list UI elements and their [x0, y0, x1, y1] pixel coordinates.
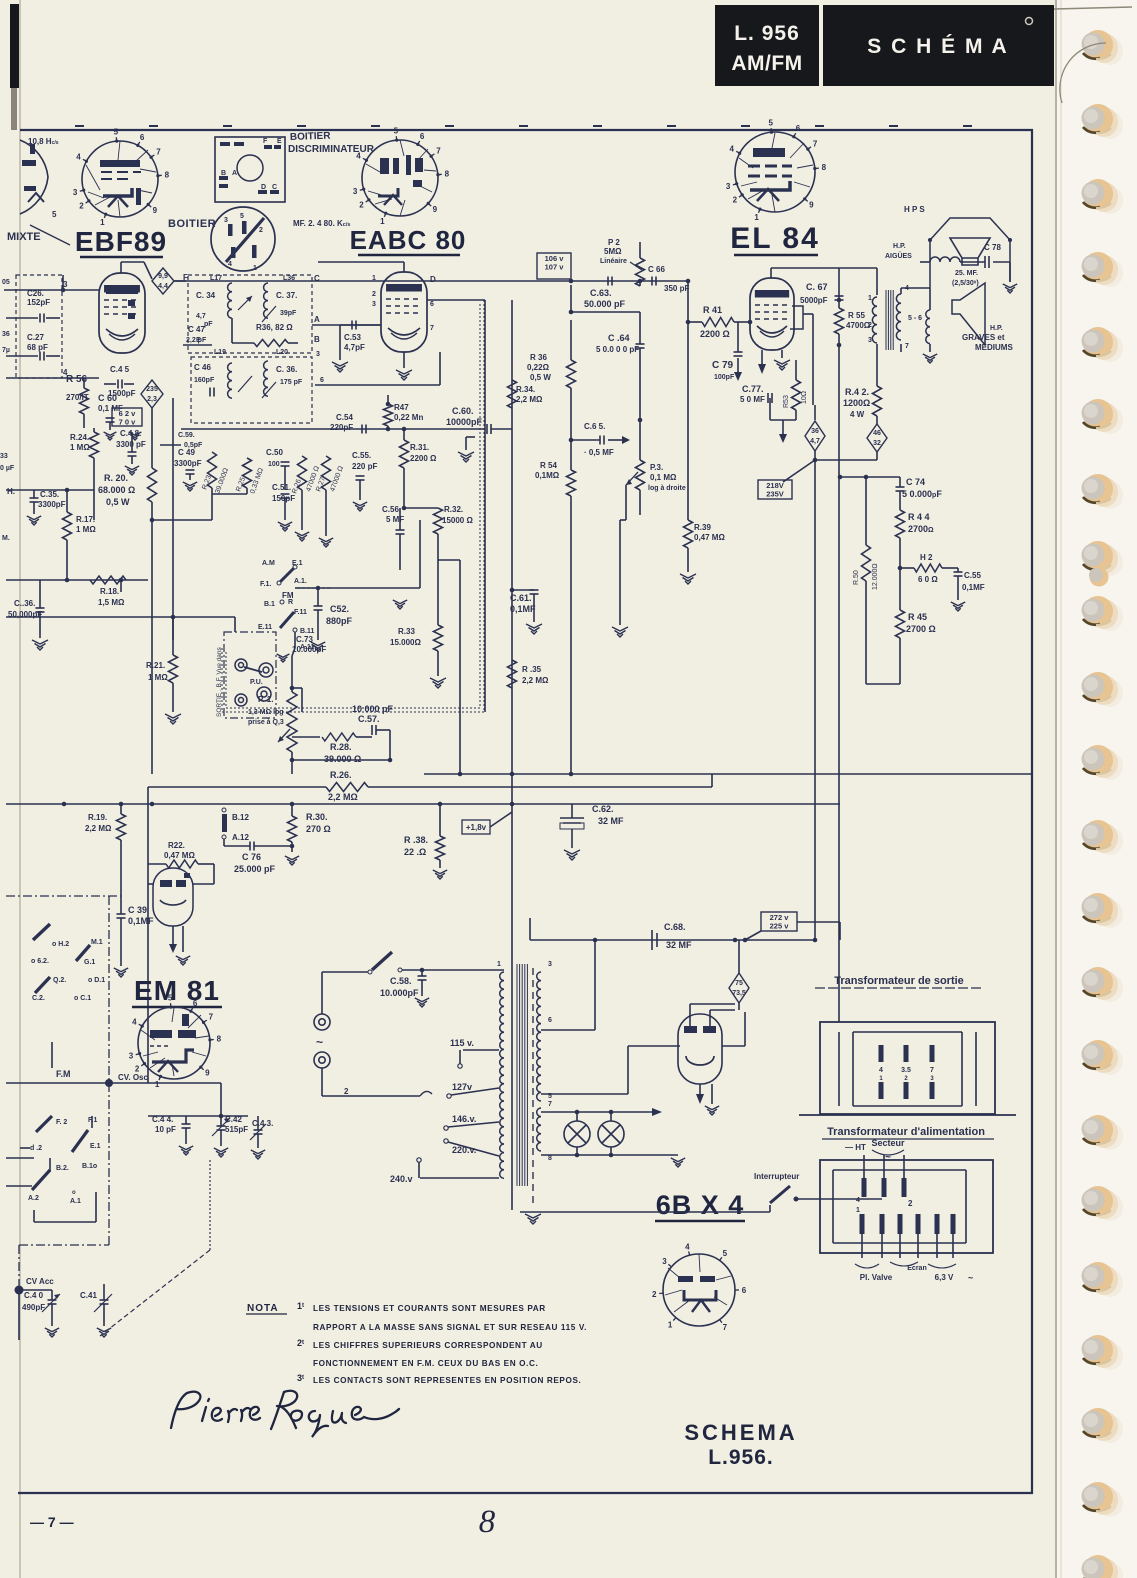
svg-text:8: 8	[479, 1504, 496, 1540]
svg-text:Linéaire: Linéaire	[600, 258, 627, 265]
svg-text:0,1MF: 0,1MF	[962, 583, 985, 592]
wire P1 bottom bus	[290, 758, 295, 763]
capacitor C53 4,7pF	[340, 324, 381, 326]
svg-text:AM/FM: AM/FM	[731, 52, 802, 75]
svg-text:0,1 MΩ: 0,1 MΩ	[650, 473, 677, 482]
svg-text:32: 32	[873, 440, 881, 447]
svg-text:100: 100	[268, 461, 280, 468]
svg-text:5MΩ: 5MΩ	[604, 247, 622, 256]
svg-text:515pF: 515pF	[225, 1125, 248, 1134]
svg-text:7: 7	[436, 147, 441, 156]
svg-text:R 45: R 45	[908, 612, 927, 622]
resistor R38 22ohm	[439, 804, 441, 836]
svg-text:R.34.: R.34.	[516, 385, 535, 394]
svg-text:E: E	[277, 138, 282, 145]
svg-text:6: 6	[548, 1017, 552, 1024]
svg-text:— HT: — HT	[845, 1143, 866, 1152]
svg-text:H.: H.	[7, 487, 15, 496]
svg-text:F.1.: F.1.	[260, 581, 271, 588]
svg-text:FONCTIONNEMENT EN F.M. CEUX DU: FONCTIONNEMENT EN F.M. CEUX DU BAS EN O.…	[313, 1359, 538, 1368]
capacitor C74 50000pF	[899, 477, 901, 487]
svg-text:4: 4	[879, 1067, 883, 1074]
svg-text:MIXTE: MIXTE	[7, 231, 41, 243]
svg-text:C.35.: C.35.	[40, 490, 59, 499]
resistor R23 39000	[208, 452, 217, 488]
svg-text:GRAVES et: GRAVES et	[962, 333, 1005, 342]
svg-text:32 MF: 32 MF	[598, 816, 624, 826]
svg-text:0,1MΩ: 0,1MΩ	[535, 471, 560, 480]
dashed box C26 C27	[16, 275, 62, 378]
labels under alim transformer	[890, 1262, 918, 1266]
svg-text:M.1: M.1	[91, 939, 103, 946]
switch A2	[32, 1170, 50, 1190]
svg-text:R 55: R 55	[848, 311, 865, 320]
svg-text:B: B	[314, 335, 320, 344]
capacitor C68 32MF	[652, 930, 657, 950]
svg-text:A.12: A.12	[232, 833, 249, 842]
svg-text:L36: L36	[283, 275, 295, 282]
svg-text:12.000Ω: 12.000Ω	[872, 563, 879, 590]
svg-text:15000 Ω: 15000 Ω	[442, 516, 473, 525]
svg-text:G.1: G.1	[84, 959, 95, 966]
svg-text:2: 2	[135, 1064, 140, 1073]
wire R32 to bus	[459, 560, 461, 774]
svg-text:270/IT: 270/IT	[66, 393, 89, 402]
ground tweeter	[1009, 262, 1011, 282]
dash-dot box SORTIE BF	[224, 632, 276, 718]
svg-text:SCHEMA: SCHEMA	[684, 1420, 797, 1445]
svg-text:R 36: R 36	[530, 353, 547, 362]
resistor R54 0,1M	[567, 470, 576, 496]
wire R55 bottom junction	[837, 343, 842, 348]
svg-text:2,2 MΩ: 2,2 MΩ	[85, 824, 112, 833]
svg-text:A.M: A.M	[262, 560, 275, 567]
schematic frame border	[18, 130, 1032, 1493]
svg-text:490pF: 490pF	[22, 1303, 45, 1312]
mains switch	[372, 952, 392, 970]
svg-text:C 74: C 74	[906, 477, 925, 487]
svg-text:0,22Ω: 0,22Ω	[527, 363, 550, 372]
svg-text:C 60: C 60	[98, 393, 117, 403]
svg-text:6: 6	[193, 999, 198, 1008]
svg-text:C.6 5.: C.6 5.	[584, 422, 605, 431]
wire B+ to C74 column	[840, 476, 900, 478]
svg-text:7: 7	[905, 343, 909, 350]
svg-text:0,5 W: 0,5 W	[106, 497, 130, 507]
svg-text:22 .Ω: 22 .Ω	[404, 847, 426, 857]
svg-text:7 0 v: 7 0 v	[119, 418, 137, 427]
output transformer base line	[799, 1114, 1016, 1116]
svg-text:10.000pF: 10.000pF	[380, 988, 419, 998]
resistor R41 2200ohm	[688, 321, 702, 323]
wire bus y617	[6, 616, 235, 618]
svg-text:MÉDIUMS: MÉDIUMS	[975, 343, 1013, 352]
coil L36 with C37	[264, 283, 268, 318]
svg-text:R.30.: R.30.	[306, 812, 328, 822]
dotted FM enclosure	[222, 300, 484, 712]
svg-text:F: F	[263, 138, 268, 145]
svg-text:C.62.: C.62.	[592, 804, 614, 814]
coil L20 with C36	[264, 361, 268, 396]
svg-text:F.M: F.M	[56, 1069, 71, 1079]
svg-text:146.v.: 146.v.	[452, 1114, 476, 1124]
wire pin6 from IF	[315, 384, 440, 386]
svg-text:C.50: C.50	[266, 448, 283, 457]
tube socket EM81	[138, 1007, 210, 1079]
wire A to tube	[312, 324, 381, 326]
resistor R31 2200ohm	[400, 440, 409, 468]
svg-text:C.58.: C.58.	[390, 976, 412, 986]
svg-text:o C.1: o C.1	[74, 995, 91, 1002]
svg-text:C.55.: C.55.	[352, 451, 371, 460]
svg-text:R36, 82 Ω: R36, 82 Ω	[256, 323, 293, 332]
svg-text:R.19.: R.19.	[88, 813, 107, 822]
resistor R30 270	[291, 804, 293, 816]
output transformer diagram box	[820, 1022, 995, 1114]
svg-text:R: R	[288, 599, 293, 606]
potentiometer P3	[636, 460, 645, 490]
dash-dot wire y896	[6, 895, 121, 897]
svg-text:F.11: F.11	[294, 609, 307, 616]
svg-text:2: 2	[908, 1199, 913, 1208]
resistor R2 60ohm	[900, 567, 914, 569]
svg-text:6: 6	[796, 124, 801, 133]
wire switch to transformer	[422, 969, 504, 971]
svg-text:~: ~	[968, 1273, 973, 1283]
output transformer core	[886, 290, 893, 350]
tube EABC80 schematic symbol	[381, 272, 427, 352]
svg-text:7: 7	[430, 325, 434, 332]
wire CV osc bus	[6, 1082, 221, 1084]
wire switch bus	[295, 587, 420, 589]
tube EBF89 schematic symbol	[99, 273, 145, 353]
svg-text:C.56.: C.56.	[382, 505, 401, 514]
svg-text:AIGÜES: AIGÜES	[885, 251, 912, 260]
wire EBF89 plate	[120, 262, 122, 273]
svg-text:46: 46	[873, 430, 881, 437]
svg-text:1: 1	[754, 213, 759, 222]
svg-text:3: 3	[316, 351, 320, 358]
svg-text:L.956.: L.956.	[708, 1446, 774, 1469]
svg-text:· 0,5 MF: · 0,5 MF	[584, 448, 614, 457]
svg-text:Q.2.: Q.2.	[53, 977, 66, 984]
svg-text:9: 9	[153, 206, 158, 215]
svg-text:0,5pF: 0,5pF	[184, 442, 203, 449]
svg-text:3300pF: 3300pF	[38, 500, 66, 509]
svg-text:5: 5	[768, 119, 773, 128]
svg-text:10000pF: 10000pF	[446, 417, 483, 427]
svg-text:EBF89: EBF89	[75, 226, 167, 257]
svg-text:3300pF: 3300pF	[174, 459, 202, 468]
svg-text:P.U.: P.U.	[250, 679, 263, 686]
wire B11 down	[294, 632, 296, 648]
svg-text:2: 2	[259, 227, 263, 234]
svg-text:225 v: 225 v	[770, 922, 790, 931]
svg-text:0 µF: 0 µF	[0, 465, 15, 472]
wire from EABC down	[511, 300, 513, 1210]
svg-text:B.2.: B.2.	[56, 1165, 69, 1172]
svg-text:1200Ω: 1200Ω	[843, 398, 870, 408]
svg-text:P.3.: P.3.	[650, 463, 663, 472]
svg-text:6: 6	[742, 1286, 747, 1295]
svg-text:68.000 Ω: 68.000 Ω	[98, 485, 135, 495]
grid cap mark EBF89	[106, 286, 138, 294]
potentiometer P2 5M linear	[639, 242, 641, 258]
svg-text:152pF: 152pF	[27, 298, 50, 307]
svg-text:EL 84: EL 84	[730, 222, 820, 255]
svg-text:H P S: H P S	[904, 205, 925, 214]
coil tweeter	[930, 257, 960, 262]
svg-text:pF: pF	[204, 321, 213, 328]
svg-text:0,22 Mn: 0,22 Mn	[394, 413, 423, 422]
capacitor C39 0,1MF	[117, 914, 126, 918]
svg-text:C.54: C.54	[336, 413, 353, 422]
svg-text:CV. Osc: CV. Osc	[118, 1073, 148, 1082]
wire x148 down	[147, 787, 149, 1083]
svg-text:4,7pF: 4,7pF	[344, 343, 365, 352]
svg-text:LES TENSIONS ET COURANTS SONT: LES TENSIONS ET COURANTS SONT MESURES PA…	[313, 1304, 546, 1313]
switch cluster H2 M1	[33, 924, 50, 940]
svg-text:9: 9	[205, 1069, 210, 1078]
svg-text:~: ~	[885, 1152, 891, 1163]
wire bus under IF	[181, 428, 388, 430]
svg-text:3: 3	[726, 182, 731, 191]
svg-text:5: 5	[723, 1249, 728, 1258]
resistor R27 4700 vertical	[322, 456, 331, 490]
label Transformateur de sortie	[815, 975, 984, 988]
output transformer pins	[879, 1045, 884, 1062]
wire junction to 218V box	[814, 460, 816, 940]
capacitor C76 25000pF	[250, 842, 254, 851]
svg-text:05: 05	[2, 279, 10, 286]
svg-text:C 49: C 49	[178, 448, 195, 457]
voltage box 106v 107v	[537, 253, 571, 279]
wire C64 branch	[570, 285, 572, 312]
resistor R21 1M	[172, 617, 174, 655]
binding holes column	[1082, 30, 1124, 1578]
svg-text:5000pF: 5000pF	[800, 296, 828, 305]
wire HP graves	[900, 344, 902, 352]
svg-text:3300 pF: 3300 pF	[116, 440, 146, 449]
svg-text:75: 75	[735, 980, 743, 987]
svg-text:CV Acc: CV Acc	[26, 1277, 54, 1286]
power transformer pins bottom	[860, 1214, 865, 1234]
svg-text:25.000 pF: 25.000 pF	[234, 864, 276, 874]
wire L19 column down	[172, 398, 174, 640]
voltage box H8v	[462, 820, 490, 834]
svg-text:107 v: 107 v	[545, 263, 565, 272]
svg-text:R.17.: R.17.	[76, 515, 95, 524]
svg-text:32 MF: 32 MF	[666, 940, 692, 950]
power transformer dashed center	[532, 968, 534, 1205]
svg-text:EM 81: EM 81	[134, 975, 220, 1006]
wire C59 bus	[160, 444, 181, 446]
svg-text:2700 Ω: 2700 Ω	[906, 624, 936, 634]
output transformer secondary	[896, 294, 901, 340]
dashed box FM IF transformer	[188, 275, 312, 353]
svg-text:D: D	[261, 184, 266, 191]
svg-text:5 MF: 5 MF	[386, 515, 404, 524]
coil L19 with C46	[228, 363, 232, 398]
svg-text:d .2: d .2	[30, 1145, 42, 1152]
resistor R39 0,47M	[687, 281, 689, 520]
wire rectifier cathode	[699, 1084, 701, 1094]
power transformer pins top	[862, 1178, 867, 1197]
svg-text:P 2: P 2	[608, 238, 620, 247]
svg-text:73,5: 73,5	[732, 990, 746, 997]
wire bus y580	[6, 579, 148, 581]
wire x640 down to P3	[639, 420, 641, 460]
svg-text:F. 2: F. 2	[56, 1119, 67, 1126]
svg-text:R.31.: R.31.	[410, 443, 429, 452]
svg-text:C.60.: C.60.	[452, 406, 474, 416]
svg-text:C.4 5: C.4 5	[110, 365, 130, 374]
wire EABC80 plate to top	[403, 262, 405, 272]
ground EABC80 cathode	[403, 352, 405, 368]
svg-text:A: A	[232, 170, 237, 177]
dashed diagonal to CV	[100, 1250, 210, 1336]
capacitor C55b 0,1MF	[954, 572, 963, 576]
resistor R34 2,2M	[508, 380, 517, 408]
svg-text:8: 8	[822, 163, 827, 172]
coil L17 with C34	[228, 283, 232, 318]
svg-text:2: 2	[359, 201, 364, 210]
svg-text:R 41: R 41	[703, 305, 722, 315]
svg-text:NOTA: NOTA	[247, 1303, 279, 1314]
svg-text:H.P.: H.P.	[893, 243, 906, 250]
svg-text:9: 9	[433, 205, 438, 214]
svg-text:4: 4	[356, 151, 361, 160]
resistor R17 1M	[63, 512, 72, 540]
mains plug	[314, 1014, 330, 1068]
svg-text:2: 2	[344, 1087, 349, 1096]
small ring mark on header	[1026, 18, 1033, 25]
svg-text:H.P.: H.P.	[990, 325, 1003, 332]
svg-text:P. 1.: P. 1.	[258, 695, 273, 704]
bus y804 main	[6, 803, 840, 805]
svg-text:115 v.: 115 v.	[450, 1038, 474, 1048]
tube socket EL84	[735, 132, 815, 212]
capacitor C65 0,5MF	[570, 440, 572, 470]
svg-text:C 46: C 46	[194, 363, 211, 372]
svg-text:4: 4	[685, 1243, 690, 1252]
svg-text:3.5: 3.5	[901, 1067, 911, 1074]
speaker HPS cone	[950, 238, 990, 265]
resistor R36 0,22ohm	[570, 320, 572, 360]
svg-text:10 pF: 10 pF	[155, 1125, 176, 1134]
svg-text:36: 36	[811, 428, 819, 435]
wire P1 wiper	[292, 687, 302, 689]
svg-text:2: 2	[652, 1290, 657, 1299]
svg-text:8: 8	[217, 1035, 222, 1044]
svg-text:0,1MF: 0,1MF	[510, 604, 536, 614]
tube socket 6BX4	[663, 1254, 735, 1326]
svg-text:C.51.: C.51.	[272, 483, 291, 492]
svg-text:8: 8	[165, 170, 170, 179]
svg-text:3: 3	[353, 187, 358, 196]
svg-text:2ᵗ: 2ᵗ	[297, 1338, 304, 1348]
svg-text:S C H É M A: S C H É M A	[867, 35, 1008, 58]
svg-text:7: 7	[723, 1323, 728, 1332]
svg-text:1: 1	[868, 295, 872, 302]
svg-text:0,47 MΩ: 0,47 MΩ	[164, 851, 195, 860]
svg-text:MF. 2. 4 80. Kc/s: MF. 2. 4 80. Kc/s	[293, 219, 350, 228]
svg-text:Secteur: Secteur	[871, 1138, 905, 1148]
svg-text:4 W: 4 W	[850, 410, 865, 419]
wire rectifier plates	[689, 1004, 691, 1026]
svg-text:5 0 MF: 5 0 MF	[740, 395, 765, 404]
wire plate circuit down	[876, 344, 878, 386]
svg-text:BOITIER: BOITIER	[290, 131, 332, 143]
svg-text:2,2 MΩ: 2,2 MΩ	[522, 676, 549, 685]
svg-text:25. MF.: 25. MF.	[955, 270, 978, 277]
resistor R18 1,5M	[90, 576, 126, 584]
svg-text:C.61.: C.61.	[510, 593, 532, 603]
svg-text:C52.: C52.	[330, 604, 349, 614]
svg-text:C.59.: C.59.	[178, 432, 195, 439]
svg-text:M.: M.	[2, 535, 10, 542]
svg-text:A.1: A.1	[70, 1198, 81, 1205]
svg-text:100pF: 100pF	[714, 374, 735, 381]
svg-text:3: 3	[372, 301, 376, 308]
svg-text:C.63.: C.63.	[590, 288, 612, 298]
diamond 75 73,5	[729, 973, 749, 1003]
svg-text:1,5 MΩ: 1,5 MΩ	[98, 598, 125, 607]
wire to F	[174, 280, 186, 282]
svg-text:A.2: A.2	[28, 1195, 39, 1202]
svg-text:C.57.: C.57.	[358, 714, 380, 724]
svg-text:R.39: R.39	[694, 523, 711, 532]
svg-text:R.26.: R.26.	[330, 770, 352, 780]
svg-text:C. 34: C. 34	[196, 291, 216, 300]
svg-text:5: 5	[168, 994, 173, 1003]
potentiometer P1	[292, 648, 295, 656]
svg-text:R47: R47	[394, 403, 409, 412]
header box SCHEMA	[823, 5, 1054, 86]
svg-text:6,3 V: 6,3 V	[935, 1273, 954, 1282]
NOTA block	[246, 1301, 587, 1385]
svg-text:10.000pF: 10.000pF	[292, 645, 326, 654]
rectifier 6BX4 tube symbol	[678, 1014, 722, 1084]
wire 272 to frame right	[797, 921, 840, 923]
tube MIXTE partial socket at left edge	[20, 140, 48, 214]
svg-text:3: 3	[662, 1257, 667, 1266]
svg-text:C. 37.: C. 37.	[276, 291, 297, 300]
svg-text:7: 7	[930, 1067, 934, 1074]
svg-text:B.1o: B.1o	[82, 1163, 97, 1170]
svg-text:9: 9	[809, 200, 814, 209]
wire AVC y520	[152, 519, 212, 521]
svg-text:R.50: R.50	[853, 570, 860, 585]
wire secondary top to HP	[900, 288, 902, 294]
svg-text:5: 5	[394, 127, 399, 136]
capacitor C58 10000pF	[398, 968, 402, 972]
wire node 4	[6, 377, 99, 379]
svg-text:C.2.: C.2.	[32, 995, 45, 1002]
svg-text:prise à Q,3: prise à Q,3	[248, 719, 284, 726]
svg-text:LES CONTACTS SONT REPRESENTES: LES CONTACTS SONT REPRESENTES EN POSITIO…	[313, 1376, 581, 1385]
dial lamps	[564, 1121, 624, 1147]
svg-text:E.1: E.1	[90, 1143, 101, 1150]
svg-text:C.27: C.27	[27, 333, 44, 342]
svg-text:8: 8	[445, 169, 450, 178]
svg-text:R.24.: R.24.	[70, 433, 89, 442]
resistor R28 4700 vertical	[298, 456, 307, 490]
svg-text:1: 1	[856, 1207, 860, 1214]
svg-text:1: 1	[155, 1080, 160, 1089]
svg-text:2: 2	[868, 322, 872, 329]
svg-text:C 79: C 79	[712, 360, 734, 371]
